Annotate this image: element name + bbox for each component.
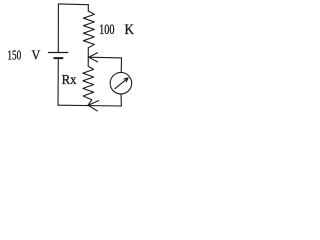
wire left rail lower <box>57 59 59 105</box>
wire meter branch down <box>120 58 122 73</box>
wire meter branch bottom <box>120 94 122 106</box>
wiper arrow bottom (tap on bottom wire) <box>88 101 98 111</box>
wire bottom <box>58 104 121 107</box>
resistor Rx zigzag <box>83 66 94 105</box>
wire left rail upper <box>57 4 59 52</box>
battery 150 V long plate <box>49 52 68 54</box>
svg-text:V: V <box>32 47 41 62</box>
wire right rail top stub <box>87 5 89 11</box>
wiper arrow mid (tap to meter) <box>89 53 122 62</box>
svg-text:K: K <box>125 22 135 38</box>
meter M1 circle <box>110 72 131 94</box>
wire rail middle section <box>87 48 89 66</box>
meter needle arrow <box>115 78 128 89</box>
battery 150 V short plate <box>54 57 62 59</box>
resistor 100 K zigzag <box>83 11 94 48</box>
svg-text:100: 100 <box>99 22 115 38</box>
svg-text:Rx: Rx <box>62 73 77 88</box>
wire top <box>58 3 88 6</box>
svg-text:150: 150 <box>7 47 21 62</box>
